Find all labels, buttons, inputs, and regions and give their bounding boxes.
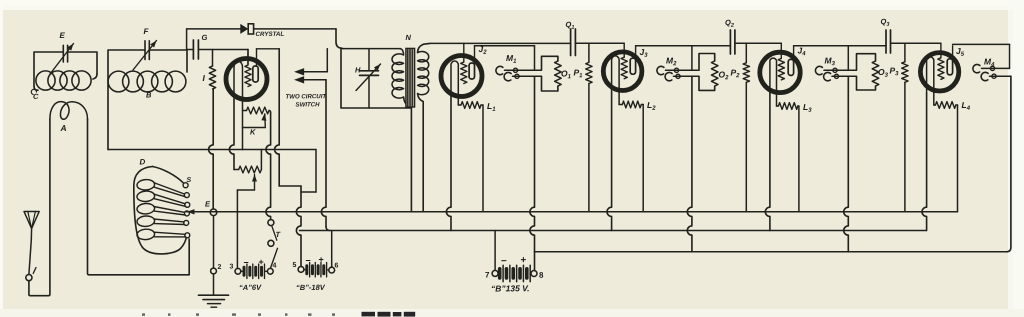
svg-text:3: 3 <box>229 263 233 270</box>
tube J5 grid lead <box>940 43 942 58</box>
grid leak P1 <box>588 43 590 62</box>
variable capacitor F plates <box>144 41 146 60</box>
tube J5 plate lead <box>952 46 954 59</box>
tube J5 plate <box>947 59 952 75</box>
coil D petals <box>137 179 155 191</box>
wire J3 plate line <box>636 45 731 47</box>
coupling condenser-resistor O1 <box>542 56 558 70</box>
grid leak P2 <box>745 43 747 63</box>
wire antenna to binding post 1 <box>29 240 31 274</box>
battery B 135V cells <box>498 269 502 278</box>
svg-text:+: + <box>318 254 323 264</box>
wire post1 to coil A left leg <box>29 119 50 296</box>
tube J4 grid <box>778 58 784 80</box>
wire plate to jack M1 <box>534 46 536 71</box>
svg-text:−: − <box>305 255 310 265</box>
battery A 6V terminals <box>235 268 241 274</box>
rheostat wiper arrow <box>252 175 257 182</box>
svg-text:K: K <box>250 127 256 136</box>
wire crystal line left <box>187 28 241 30</box>
tube J3 plate <box>630 58 635 74</box>
wire grid rail stage4 <box>891 42 941 44</box>
tube J3 envelope <box>603 52 642 91</box>
tuned circuit box B-F <box>108 50 187 150</box>
wire up from B-box corner <box>186 29 188 50</box>
wire plate line to jack M4 <box>1009 44 1011 68</box>
wire switch lower down to bus2 <box>321 80 326 227</box>
variable capacitor E arrow <box>50 44 74 75</box>
tuned circuit box C-E top/left/right <box>34 52 97 86</box>
tube J4 envelope <box>760 52 800 92</box>
coil A <box>50 102 88 120</box>
tube J4 plate <box>788 59 793 75</box>
coil A right leg to coil D bottom tap wire <box>88 119 190 275</box>
wire grid rail stage2 <box>575 42 624 44</box>
svg-text:“B”-18V: “B”-18V <box>296 283 326 292</box>
capacitor Q3 <box>885 30 887 53</box>
svg-text:SWITCH: SWITCH <box>295 101 320 108</box>
battery B 18V cells <box>304 269 306 271</box>
tank box H left/bottom <box>341 49 411 108</box>
svg-text:6: 6 <box>334 262 338 269</box>
coil D outer turn <box>134 167 186 254</box>
svg-text:G: G <box>201 33 207 42</box>
binding post 2 <box>211 268 217 274</box>
coil D tap points <box>183 183 188 188</box>
tube J2 grid lead <box>463 43 465 62</box>
transformer N secondary bottom lead <box>418 94 424 212</box>
resistor I <box>212 50 214 67</box>
grid leak P3 <box>904 43 906 62</box>
wire J2 plate line <box>475 45 535 47</box>
tube J2 plate <box>469 63 474 79</box>
wire J1 filament leg2 down <box>242 100 244 150</box>
jack M1 <box>496 66 503 74</box>
svg-text:2: 2 <box>217 264 221 271</box>
wire crystal drop with loop <box>336 29 343 49</box>
bus wire 3 (B plus 135) <box>535 251 1007 253</box>
tube J5 envelope <box>920 53 958 91</box>
svg-text:“A”6V: “A”6V <box>239 283 262 292</box>
tube J5 filament <box>927 57 934 93</box>
tube J1 plate <box>253 66 258 82</box>
tube J1 filament <box>234 61 243 100</box>
transformer N primary winding <box>392 49 404 99</box>
switch T terminal <box>268 220 274 226</box>
tube J4 filament <box>770 58 777 93</box>
tube J5 grid <box>938 58 944 80</box>
svg-text:B: B <box>146 90 152 99</box>
coupling condenser-resistor O3 <box>857 54 876 70</box>
transformer N secondary winding <box>418 52 429 95</box>
tube J4 grid lead <box>780 43 782 58</box>
wire to battery point 5 <box>296 186 301 267</box>
resistor L1 <box>457 97 459 105</box>
tube J2 grid <box>461 62 467 84</box>
switch T middle terminal <box>268 240 274 246</box>
wire jack M3 to bus3 <box>844 76 849 252</box>
bus wire 1 (filament minus) <box>187 211 958 213</box>
tube J3 grid <box>621 57 627 78</box>
wire point E to ground <box>213 216 215 268</box>
svg-text:7: 7 <box>485 270 490 279</box>
jack M3 <box>815 66 822 74</box>
two-circuit switch upper contact <box>295 69 304 75</box>
svg-text:−: − <box>501 256 507 267</box>
wire J4 plate line <box>794 45 886 47</box>
wire stub to B-box bottom line <box>315 150 317 193</box>
wire J1 plate down <box>275 49 280 186</box>
svg-text:H: H <box>355 65 361 74</box>
variable capacitor E plates <box>62 45 64 62</box>
binding post 1 <box>26 275 32 281</box>
battery A 6V cells <box>241 270 243 272</box>
switch T blade <box>270 248 277 268</box>
jack M2 <box>657 66 664 74</box>
point E on bus <box>210 209 217 216</box>
wire grid rail stage1 <box>430 42 571 44</box>
resistor L2 <box>618 92 620 104</box>
selector arm arrowhead <box>187 209 195 214</box>
potentiometer K wiper <box>261 114 266 121</box>
transformer N core <box>406 48 415 107</box>
tube J1 plate lead <box>256 49 258 66</box>
antenna <box>24 212 39 229</box>
tube J2 filament <box>451 61 458 97</box>
coil C <box>36 71 55 90</box>
svg-text:N: N <box>405 33 411 42</box>
svg-text:C: C <box>33 92 39 101</box>
coil B <box>108 71 129 92</box>
potentiometer K <box>243 110 247 112</box>
resistor L4 <box>933 93 935 105</box>
tube J1 grid lead <box>247 50 249 66</box>
wire jack M4 to bus3 <box>1006 76 1011 252</box>
wire J5 plate line <box>953 43 1010 45</box>
wire I to point E on bus <box>209 89 214 209</box>
tube J2 plate lead <box>474 46 476 63</box>
jack M4 <box>973 64 980 72</box>
wire jack M2 to bus3 <box>687 76 692 252</box>
wire B to capacitor G <box>187 49 193 51</box>
svg-text:+: + <box>520 255 526 266</box>
coupling condenser-resistor O2 <box>699 54 715 70</box>
tube J1 envelope <box>226 59 267 100</box>
printed text remnants at sheet edge <box>142 312 415 317</box>
svg-text:5: 5 <box>292 262 296 269</box>
wire plate to jack M3 <box>847 46 849 71</box>
svg-text:8: 8 <box>539 271 544 280</box>
wire B-box bottom run <box>108 149 316 151</box>
wire to transformer primary <box>343 48 401 50</box>
bus wire 2 <box>300 230 927 232</box>
wire switch upper to crystal line <box>326 49 328 72</box>
wire point 6 riser <box>331 231 333 268</box>
svg-text:CRYSTAL: CRYSTAL <box>255 31 284 38</box>
crystal detector symbol <box>241 25 248 33</box>
coil D top strand <box>153 167 184 183</box>
tube J1 grid <box>245 65 251 87</box>
wire G to detector grid <box>198 49 248 51</box>
ground symbol <box>213 274 215 295</box>
wire J3 filament to bus2 <box>607 93 612 231</box>
wire J5 filament to bus2 <box>922 93 927 231</box>
tube J2 envelope <box>441 56 482 97</box>
wire J1 filament leg1 to rheostat <box>229 100 234 170</box>
tube J3 filament <box>612 56 620 92</box>
svg-text:D: D <box>139 157 145 166</box>
wire J2 filament to bus2 <box>446 97 451 231</box>
resistor L3 <box>776 93 778 106</box>
rheostat (filament pot) <box>239 166 262 173</box>
svg-text:A: A <box>59 123 66 133</box>
wire point 7 riser <box>494 231 496 271</box>
transformer N primary bottom lead <box>404 97 412 212</box>
svg-text:TWO CIRCUIT: TWO CIRCUIT <box>285 93 327 100</box>
tube J3 plate lead <box>635 46 637 58</box>
svg-text:S: S <box>186 177 191 184</box>
svg-text:“B”135 V.: “B”135 V. <box>491 283 530 293</box>
wire crystal line right <box>254 28 336 30</box>
svg-text:+: + <box>258 257 263 267</box>
wire wiper to battery point 3 <box>236 190 238 269</box>
capacitor Q1 <box>570 29 572 56</box>
svg-text:E: E <box>59 31 65 40</box>
wire K to switch T <box>269 111 271 113</box>
wire grid rail stage3 <box>735 42 781 44</box>
two-circuit switch lower contact <box>295 77 304 83</box>
battery B 135V terminals <box>492 270 498 276</box>
svg-text:4: 4 <box>272 262 276 269</box>
capacitor G plates <box>192 40 194 59</box>
svg-text:−: − <box>243 257 248 267</box>
wire J4 filament to bus2 <box>765 94 770 231</box>
variable capacitor H <box>368 49 370 71</box>
variable capacitor F arrow <box>133 41 157 71</box>
wire jack M1 to B-battery bus <box>530 76 535 270</box>
tube J4 plate lead <box>793 46 795 60</box>
battery B 18V terminals <box>298 267 304 273</box>
wire plate to jack M2 <box>691 46 693 71</box>
tube J3 grid lead <box>623 43 625 57</box>
capacitor Q2 <box>729 30 731 54</box>
